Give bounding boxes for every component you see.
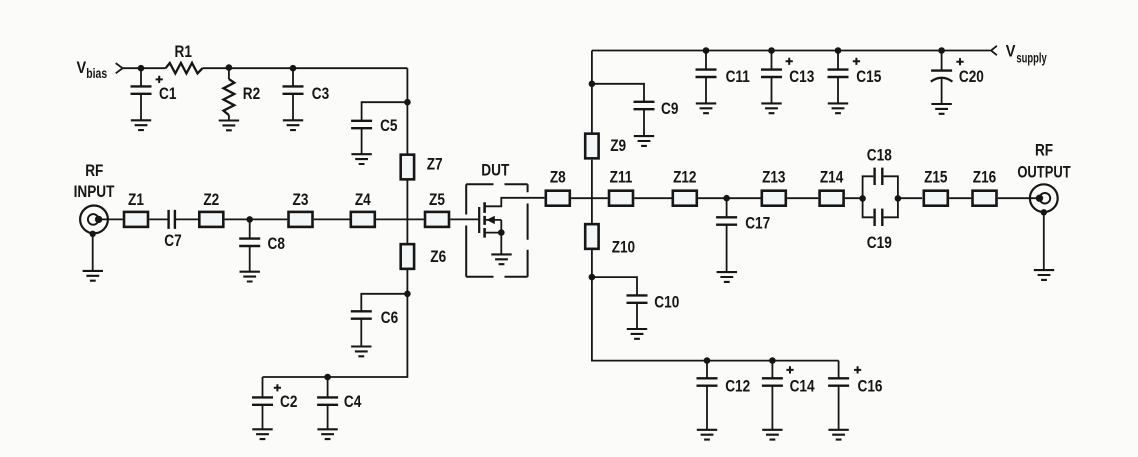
svg-text:Z12: Z12 bbox=[673, 168, 696, 186]
capacitor C5 bbox=[351, 121, 372, 154]
svg-text:C6: C6 bbox=[381, 309, 398, 327]
svg-text:Z16: Z16 bbox=[973, 168, 996, 186]
svg-text:C16: C16 bbox=[858, 377, 883, 395]
wire bias feed down bbox=[406, 68, 408, 154]
capacitor C2 bbox=[252, 377, 273, 429]
capacitor C8 bbox=[239, 219, 260, 271]
node output connector shield bbox=[1041, 209, 1047, 215]
node DUT source junction bbox=[498, 229, 505, 236]
wire down to C12 rail bbox=[592, 277, 839, 361]
capacitor C16 bbox=[828, 361, 849, 430]
impedance Z3 bbox=[289, 212, 313, 227]
impedance Z16 bbox=[973, 191, 997, 206]
svg-text:C17: C17 bbox=[745, 215, 770, 233]
svg-text:Z5: Z5 bbox=[429, 191, 445, 209]
svg-text:C10: C10 bbox=[654, 294, 679, 312]
svg-text:Z9: Z9 bbox=[610, 137, 626, 155]
svg-text:C15: C15 bbox=[856, 68, 881, 86]
svg-text:C14: C14 bbox=[790, 377, 815, 395]
svg-text:DUT: DUT bbox=[481, 162, 509, 180]
capacitor C1 bbox=[131, 68, 152, 120]
impedance Z7 bbox=[401, 155, 414, 180]
svg-text:RF: RF bbox=[1035, 142, 1053, 160]
svg-text:C8: C8 bbox=[268, 235, 285, 253]
ground C13 bbox=[761, 103, 781, 113]
wire Z16 to output bbox=[998, 197, 1040, 199]
svg-text:V: V bbox=[77, 59, 87, 77]
capacitor C6 bbox=[351, 311, 372, 346]
impedance Z6 bbox=[401, 244, 414, 269]
ground C12 bbox=[697, 430, 717, 440]
svg-text:supply: supply bbox=[1016, 50, 1046, 66]
impedance Z2 bbox=[199, 212, 223, 227]
node C6 tap bbox=[404, 291, 411, 298]
node input connector shield bbox=[90, 231, 96, 237]
ground C8 bbox=[240, 272, 260, 282]
wire C6 branch bbox=[361, 294, 407, 312]
node C15 tap bbox=[835, 47, 842, 54]
capacitor C7 bbox=[169, 210, 175, 229]
impedance Z9 bbox=[585, 134, 598, 159]
svg-text:RF: RF bbox=[85, 162, 103, 180]
impedance Z10 bbox=[585, 224, 598, 249]
svg-text:C11: C11 bbox=[726, 68, 750, 86]
node C1 tap bbox=[138, 65, 145, 72]
impedance Z14 bbox=[820, 191, 844, 206]
wire input pin to Z1 bbox=[99, 218, 123, 220]
ground C4 bbox=[317, 429, 337, 439]
RF output connector bbox=[1030, 184, 1058, 212]
capacitor C3 bbox=[283, 68, 304, 120]
ground C10 bbox=[627, 329, 647, 339]
plus C13 bbox=[786, 58, 793, 65]
ground C2 bbox=[252, 429, 272, 439]
capacitor C20 bbox=[931, 51, 953, 105]
node C17 tap bbox=[723, 195, 730, 202]
wire Z6 down bbox=[406, 270, 408, 294]
ground C9 bbox=[634, 136, 654, 146]
svg-text:C5: C5 bbox=[380, 117, 397, 135]
node C11 tap bbox=[703, 47, 710, 54]
node C5 tap bbox=[404, 99, 411, 106]
wire Z11 to Z12 bbox=[634, 197, 671, 199]
svg-text:Z7: Z7 bbox=[427, 156, 443, 174]
capacitor C10 bbox=[627, 295, 648, 329]
impedance Z5 bbox=[425, 212, 449, 227]
svg-text:Z15: Z15 bbox=[924, 168, 947, 186]
wire Z13 to Z14 bbox=[787, 197, 818, 199]
capacitor C4 bbox=[317, 377, 338, 429]
wire down to C2C4 rail bbox=[263, 294, 408, 377]
node C13 tap bbox=[768, 47, 775, 54]
impedance Z1 bbox=[124, 212, 148, 227]
wire Vsupply rail bbox=[592, 50, 990, 52]
svg-text:Z2: Z2 bbox=[203, 191, 219, 209]
node C4 tap bbox=[324, 374, 331, 381]
DUT dashed box bbox=[466, 184, 527, 277]
ground C6 bbox=[351, 347, 371, 357]
svg-text:C1: C1 bbox=[159, 85, 176, 103]
impedance Z12 bbox=[673, 191, 697, 206]
node C20 tap bbox=[938, 47, 945, 54]
capacitor C15 bbox=[828, 51, 849, 104]
wire input shield to ground bbox=[92, 234, 94, 271]
plus C20 bbox=[956, 58, 963, 65]
wire Z1 to C7 bbox=[149, 218, 167, 220]
svg-text:C18: C18 bbox=[867, 146, 892, 164]
plus C2 bbox=[274, 384, 281, 391]
wire bias rail left bbox=[122, 67, 166, 69]
svg-text:C13: C13 bbox=[789, 68, 814, 86]
capacitor C13 bbox=[761, 51, 782, 104]
wire Z8 to Z11 bbox=[571, 197, 608, 199]
wire Z15 to Z16 bbox=[949, 197, 971, 199]
RF input connector bbox=[80, 206, 108, 234]
plus C15 bbox=[853, 58, 860, 65]
node C10 tap bbox=[589, 274, 596, 281]
svg-text:Z1: Z1 bbox=[128, 191, 144, 209]
ground RF input bbox=[83, 271, 103, 281]
capacitor C17 bbox=[716, 198, 737, 272]
wire C5 branch bbox=[362, 102, 408, 121]
wire Z3 to Z4 bbox=[314, 218, 350, 220]
ground C16 bbox=[828, 430, 848, 440]
svg-text:Z4: Z4 bbox=[355, 191, 371, 209]
svg-text:Z6: Z6 bbox=[430, 248, 446, 266]
svg-text:C20: C20 bbox=[959, 68, 984, 86]
node C12 tap bbox=[704, 357, 711, 364]
svg-text:C3: C3 bbox=[312, 85, 329, 103]
ground C1 bbox=[131, 120, 151, 130]
wire C10 branch bbox=[592, 277, 637, 295]
wire Z4 to Z5 bbox=[376, 218, 424, 220]
svg-text:C4: C4 bbox=[344, 393, 361, 411]
wire Z10 down bbox=[591, 250, 593, 277]
svg-text:C9: C9 bbox=[661, 100, 678, 118]
wire DUT source to ground bbox=[500, 233, 502, 255]
ground RF output bbox=[1034, 270, 1054, 280]
capacitor C14 bbox=[762, 361, 783, 430]
svg-text:R2: R2 bbox=[243, 85, 260, 103]
node C8 tap bbox=[246, 216, 253, 223]
wire Z14 to C18 node bbox=[845, 197, 863, 199]
wire bias rail right bbox=[203, 67, 408, 69]
impedance Z13 bbox=[762, 191, 786, 206]
resistor R2 bbox=[224, 68, 235, 121]
ground C14 bbox=[762, 430, 782, 440]
ground C3 bbox=[283, 120, 303, 130]
node C3 tap bbox=[290, 65, 297, 72]
wire Z12 to Z13 bbox=[698, 197, 760, 199]
transistor Q1 (DUT MOSFET) bbox=[479, 202, 501, 237]
Vbias input connector bbox=[116, 63, 123, 73]
ground R2 bbox=[219, 121, 239, 131]
node C9 tap bbox=[589, 81, 596, 88]
node R2 tap bbox=[226, 64, 233, 71]
wire Z2 to Z3 bbox=[225, 218, 288, 220]
ground C20 bbox=[931, 104, 951, 114]
ground C5 bbox=[351, 154, 371, 164]
node C14 tap bbox=[769, 357, 776, 364]
wire Z7 to Z6 bbox=[406, 180, 408, 243]
svg-text:Z14: Z14 bbox=[820, 168, 843, 186]
svg-text:Z8: Z8 bbox=[550, 168, 566, 186]
ground C11 bbox=[696, 103, 716, 113]
plus C16 bbox=[854, 366, 861, 373]
ground C17 bbox=[717, 272, 737, 282]
Vsupply connector bbox=[991, 46, 997, 55]
node C18-C19 right bbox=[895, 195, 902, 202]
plus C14 bbox=[786, 366, 793, 373]
impedance Z11 bbox=[609, 191, 633, 206]
svg-text:C7: C7 bbox=[164, 232, 181, 250]
svg-text:C12: C12 bbox=[725, 377, 750, 395]
svg-text:C19: C19 bbox=[867, 234, 892, 252]
svg-text:C2: C2 bbox=[280, 393, 297, 411]
capacitor C9 bbox=[634, 102, 655, 136]
capacitor C11 bbox=[696, 51, 717, 104]
impedance Z4 bbox=[351, 212, 375, 227]
svg-text:OUTPUT: OUTPUT bbox=[1017, 164, 1070, 182]
wire output shield to ground bbox=[1043, 212, 1045, 270]
svg-text:Z3: Z3 bbox=[293, 191, 309, 209]
wire C18 node to Z15 bbox=[898, 197, 922, 199]
capacitor C19 (bottom branch) bbox=[863, 198, 898, 226]
wire DUT drain bbox=[485, 198, 545, 207]
impedance Z8 bbox=[546, 191, 570, 206]
svg-text:Z10: Z10 bbox=[612, 239, 635, 257]
wire C9 branch bbox=[592, 84, 644, 102]
svg-text:Z13: Z13 bbox=[762, 168, 785, 186]
wire Z5 to DUT gate bbox=[450, 218, 478, 220]
wire Z9 to Z10 bbox=[591, 160, 593, 224]
svg-text:Z11: Z11 bbox=[610, 168, 633, 186]
wire C7 to Z2 bbox=[176, 218, 198, 220]
node C18-C19 left bbox=[859, 195, 866, 202]
svg-text:INPUT: INPUT bbox=[74, 183, 115, 201]
svg-text:R1: R1 bbox=[175, 43, 192, 61]
ground DUT bbox=[491, 254, 511, 264]
capacitor C12 bbox=[697, 361, 718, 430]
wire supply feed down bbox=[591, 51, 593, 134]
svg-text:V: V bbox=[1006, 43, 1016, 61]
plus C1 bbox=[156, 76, 163, 83]
svg-text:bias: bias bbox=[86, 65, 107, 81]
ground C15 bbox=[828, 103, 848, 113]
resistor R1 bbox=[166, 63, 203, 73]
impedance Z15 bbox=[924, 191, 948, 206]
capacitor C18 (top branch) bbox=[863, 168, 898, 199]
